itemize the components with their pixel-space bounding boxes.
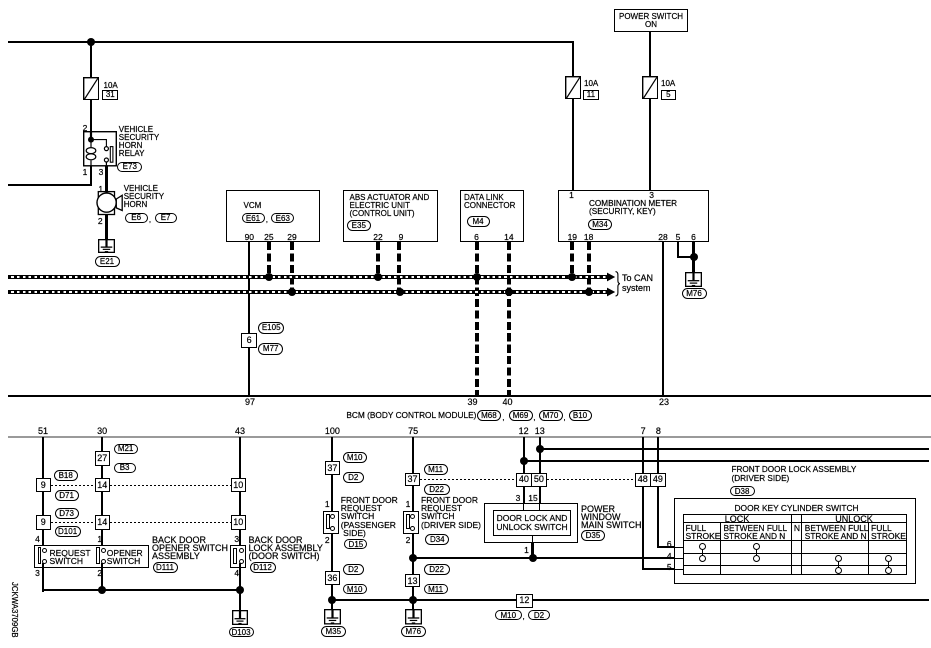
- wire: VCM pin 25 CAN-H drop: [267, 242, 271, 277]
- connector oval E35: [347, 220, 371, 231]
- label 10A fuse 11: [584, 80, 598, 88]
- wire: ABS pin 9 CAN-L drop: [397, 242, 401, 292]
- label OPENER SWITCH: [107, 549, 143, 565]
- boxed label 31: [102, 90, 118, 100]
- pin 43 label: [228, 427, 252, 436]
- wire: meter pin 5 jog right: [677, 256, 695, 258]
- pin 2 driver request switch: [397, 536, 419, 544]
- wire: VCM pin 29 CAN-L drop: [290, 242, 294, 292]
- connector oval M10 (wire 100 upper): [343, 452, 367, 463]
- pin 1 of relay: [74, 168, 96, 176]
- label FRONT DOOR REQUEST SWITCH (DRIVER SIDE): [421, 496, 481, 529]
- opener switch contact top: [101, 548, 106, 553]
- DOOR LOCK AND UNLOCK SWITCH inner box: [493, 510, 571, 536]
- connector oval M21: [114, 444, 138, 454]
- back door lock assembly (door switch) box: [230, 545, 246, 567]
- wire: meter pin 6 to ground: [692, 242, 694, 273]
- wire from node 12 to right edge: [523, 460, 929, 462]
- driver request switch bar: [406, 514, 410, 529]
- driver request switch contact top: [410, 514, 415, 519]
- pin 1 of horn: [90, 185, 112, 193]
- table horizontal line under LOCK/UNLOCK: [683, 522, 908, 523]
- wire: opener switch pin 2 down: [101, 563, 103, 592]
- connector oval E61: [242, 213, 265, 224]
- request switch contact top: [42, 548, 47, 553]
- label VCM: [244, 202, 262, 210]
- wire from node 13 to right edge: [539, 448, 929, 450]
- door switch contact bar: [233, 548, 237, 564]
- wire 23: meter pin 28 to BCM: [662, 242, 664, 396]
- connector oval M70: [539, 410, 563, 421]
- node: wire 75 on unlock bus: [409, 554, 417, 562]
- table vertical line N/col3: [801, 514, 802, 575]
- pin 2 below opener switch: [89, 569, 111, 577]
- wire: pin 15 inside switch box: [539, 503, 540, 511]
- label FRONT DOOR REQUEST SWITCH (PASSENGER SIDE): [341, 496, 398, 537]
- pin 1 of combination meter: [561, 191, 583, 199]
- wire 43 between rows: [239, 492, 241, 515]
- connector oval M10 (wire 100 lower): [343, 584, 367, 595]
- label FULL STROKE lock: [686, 524, 721, 540]
- connector oval D22 (wire 75 lower): [424, 564, 450, 575]
- ground symbol M35: [324, 609, 341, 625]
- label N: [793, 524, 802, 532]
- label UNLOCK: [826, 515, 882, 523]
- node: wire 13 branch: [536, 445, 544, 453]
- table vertical line col2/N: [791, 514, 792, 575]
- connector 10 box row1: [231, 478, 246, 492]
- pin 19 of combination meter: [561, 233, 583, 241]
- passenger request switch contact bottom: [330, 526, 335, 531]
- ground bus bottom: [331, 599, 929, 601]
- pin 5 key cylinder: [658, 563, 680, 571]
- node: meter 18 on CAN-L: [585, 288, 593, 296]
- connector oval B10: [569, 410, 592, 421]
- connector 13 box on wire 75: [405, 574, 421, 588]
- wire 7 horizontal into table: [642, 568, 675, 570]
- connector 14 box row1: [95, 478, 110, 492]
- node: VCM 25 on CAN-H: [265, 273, 273, 281]
- door switch contact bottom: [239, 559, 244, 564]
- contact circle lock full row6: [699, 543, 706, 550]
- pin 9 of ABS unit: [390, 233, 412, 241]
- label ABS ACTUATOR AND ELECTRIC UNIT (CONTROL UNIT): [350, 194, 430, 218]
- driver request switch contact bottom: [410, 526, 415, 531]
- pin 6 of DLC: [466, 233, 488, 241]
- contact circle lock between row4: [753, 555, 760, 562]
- wire 8 to key cylinder row 6: [657, 487, 659, 549]
- connector 6 box on wire 97: [241, 333, 257, 349]
- connector oval B18: [54, 470, 78, 481]
- pin 18 of combination meter: [578, 233, 600, 241]
- contact circle unlock between row5: [835, 567, 842, 574]
- front door lock assembly outer box: [674, 498, 916, 584]
- pin 23 label at BCM: [652, 398, 676, 407]
- vehicle security horn symbol E6/E7: [96, 190, 124, 216]
- brace to CAN system: [615, 271, 621, 297]
- pin 7 label: [631, 427, 655, 436]
- wire: meter pin 5 down: [677, 242, 679, 257]
- POWER SWITCH ON box: [614, 9, 688, 32]
- wire: request switch pin 3 down: [42, 563, 44, 592]
- wire 7 to key cylinder row 5: [642, 487, 644, 570]
- connector 37 box on wire 75: [405, 473, 421, 486]
- front door request switch driver box: [403, 511, 419, 534]
- wire 100 from BCM: [331, 437, 333, 462]
- pin 90 of VCM: [238, 233, 260, 241]
- contact circle lock full row4: [699, 555, 706, 562]
- dotted connector line row2 left: [51, 522, 95, 523]
- pin 1 back door opener switch: [89, 535, 111, 543]
- connector oval D103: [229, 627, 254, 638]
- connector oval E73: [117, 162, 142, 172]
- VCM box: [226, 190, 320, 242]
- connector 36 box on wire 100: [325, 571, 341, 585]
- label FRONT DOOR LOCK ASSEMBLY (DRIVER SIDE): [732, 466, 857, 484]
- key cylinder switch table frame: [683, 514, 908, 575]
- pin 1 power window main switch: [516, 546, 538, 554]
- connector oval M76 (meter ground): [682, 288, 707, 299]
- connector oval D35: [581, 530, 605, 541]
- connector oval M68: [477, 410, 501, 421]
- connector oval M11 (wire 75 upper): [424, 464, 448, 475]
- sidebar code JCKWA3709GB: [10, 582, 19, 638]
- wire 12 from BCM: [523, 437, 525, 474]
- ground symbol M76 (bottom): [405, 609, 422, 625]
- wire: fuse 11 to combination meter pin 1: [572, 99, 574, 190]
- pin 3 below request switch: [27, 569, 49, 577]
- wire: pin 1 inside switch box: [532, 535, 533, 543]
- connector 50 box on wire 13: [531, 473, 548, 487]
- dotted connector line row2 right: [110, 522, 231, 523]
- wire 75 to bus junction and connector 13: [412, 533, 414, 575]
- passenger request switch bar: [326, 514, 330, 529]
- connector oval M76 (bottom): [401, 626, 426, 637]
- boxed label 5: [661, 90, 677, 100]
- label BETWEEN FULL STROKE AND N unlock: [805, 524, 869, 540]
- pin 3 of combination meter: [641, 191, 663, 199]
- pin 2 passenger request switch: [316, 536, 338, 544]
- wire 75 to driver request switch: [412, 485, 414, 511]
- wire: left horizontal bus to relay pin 1: [8, 184, 92, 186]
- BCM bottom edge line (gray): [8, 436, 931, 438]
- wire: horn pin 2 to ground E21: [105, 215, 107, 241]
- wire 13 from BCM: [539, 437, 541, 474]
- connector oval M11 (wire 75 lower): [424, 584, 448, 595]
- connector oval E7: [155, 213, 177, 223]
- pin 2 of relay E73: [74, 124, 96, 132]
- wire: connector 50 to switch pin 15: [539, 487, 541, 504]
- node: wire 12 branch: [520, 457, 528, 465]
- wire 30 between connectors: [101, 465, 103, 479]
- connector oval M77: [258, 343, 283, 355]
- label VEHICLE SECURITY HORN RELAY: [119, 126, 159, 158]
- contact circle unlock full row5: [885, 567, 892, 574]
- connector oval E6: [125, 213, 148, 223]
- connector oval D22 (wire 75 upper): [424, 484, 450, 495]
- pin 12 label: [512, 427, 536, 436]
- wire 40: DLC pin 14 to BCM: [507, 242, 511, 396]
- dotted connector line 50 to 48: [547, 479, 635, 480]
- wire 8 horizontal into table: [657, 546, 675, 548]
- connector 10 box row2: [231, 515, 246, 529]
- ground symbol D103: [232, 610, 248, 625]
- wire 75 from BCM: [412, 437, 414, 474]
- connector oval D71: [55, 490, 79, 501]
- front door request switch passenger box: [323, 511, 339, 534]
- contact circle unlock full row4: [885, 555, 892, 562]
- node: VCM 29 on CAN-L: [288, 288, 296, 296]
- pin 4 below door switch: [226, 569, 248, 577]
- wire 8 from BCM: [657, 437, 659, 474]
- contact tick unlock full: [888, 562, 889, 570]
- pin 97 label at BCM: [238, 398, 262, 407]
- connector oval M10 (ground bus): [495, 610, 522, 621]
- wire: supply bus corner down to fuse 11: [572, 41, 574, 76]
- pin 75 label: [401, 427, 425, 436]
- CAN-H bus line: [8, 275, 607, 279]
- label REQUEST SWITCH: [50, 549, 91, 565]
- table horizontal line row4/row5: [683, 565, 908, 566]
- wire 7 from BCM: [642, 437, 644, 474]
- ground bus back door: [42, 589, 241, 591]
- pin 39 label at BCM: [461, 398, 485, 407]
- label VEHICLE SECURITY HORN: [124, 185, 164, 209]
- wire 75 to ground M76: [412, 587, 414, 610]
- node: DLC 6 on CAN-H: [473, 273, 481, 281]
- unlock bus to key cylinder row 4: [412, 557, 675, 559]
- COMBINATION METER box: [558, 190, 710, 242]
- comma after M69: [533, 414, 535, 422]
- node: junction on supply bus above fuse 31: [87, 38, 95, 46]
- comma between E61 and E63: [266, 216, 268, 224]
- dotted connector line row1 left: [51, 485, 95, 486]
- connector oval D2 (wire 100 lower): [343, 564, 364, 575]
- connector oval D34: [425, 534, 449, 545]
- pin 15 door lock switch: [522, 494, 544, 502]
- connector 37 box on wire 100: [325, 461, 341, 475]
- node: DLC 14 on CAN-L: [505, 288, 513, 296]
- door switch contact top: [239, 548, 244, 553]
- wire 100 to passenger request switch: [331, 474, 333, 511]
- pin 40 label at BCM: [496, 398, 520, 407]
- opener switch contact bar: [96, 547, 100, 564]
- boxed label 11: [583, 90, 599, 100]
- ABS actuator box: [343, 190, 438, 242]
- contact circle unlock between row4: [835, 555, 842, 562]
- wire: top supply bus: [8, 41, 574, 43]
- back door opener switch assembly box: [34, 545, 149, 568]
- pin 25 of VCM: [258, 233, 280, 241]
- wire: meter pin 19 CAN-H drop: [570, 242, 574, 277]
- pin 100 label: [320, 427, 344, 436]
- wire 39: DLC pin 6 to BCM: [475, 242, 479, 396]
- wire: power switch to fuse 5: [649, 32, 651, 76]
- connector oval E21: [95, 256, 120, 267]
- pin 29 of VCM: [281, 233, 303, 241]
- power window main switch outer box: [484, 503, 578, 544]
- wire 30 to opener switch: [101, 529, 103, 548]
- label BETWEEN FULL STROKE AND N lock: [724, 524, 788, 540]
- label BCM (BODY CONTROL MODULE): [346, 411, 476, 419]
- label 10A fuse 31: [104, 82, 118, 90]
- pin 8 label: [646, 427, 670, 436]
- connector oval D101: [55, 526, 81, 537]
- wire: relay pin 3 to horn pin 1: [105, 166, 107, 192]
- pin 5 of combination meter: [667, 233, 689, 241]
- connector 12 box on ground bus: [516, 594, 533, 608]
- wire 51 to request switch: [42, 529, 44, 548]
- label To CAN system: [622, 274, 653, 293]
- label POWER WINDOW MAIN SWITCH: [581, 505, 642, 530]
- wire: switch pin 1 to unlock bus: [531, 543, 533, 559]
- pin 3 of relay: [90, 168, 112, 176]
- label DATA LINK CONNECTOR: [464, 194, 515, 210]
- wire: pin 3 inside switch box: [523, 503, 524, 511]
- passenger request switch contact top: [330, 514, 335, 519]
- comma after M10: [523, 613, 525, 621]
- opener switch contact bottom: [101, 559, 106, 564]
- wire 100 to connector 36: [331, 533, 333, 572]
- node: door switch on ground bus: [236, 586, 244, 594]
- wire 30 from BCM: [101, 437, 103, 452]
- wire 51 between rows: [42, 492, 44, 515]
- wire stub row 6 into table: [674, 547, 683, 548]
- wire: door switch pin 4 down to ground: [239, 563, 241, 611]
- wire: fuse 31 to relay pin 2: [90, 100, 92, 140]
- label BACK DOOR OPENER SWITCH ASSEMBLY: [152, 536, 228, 561]
- wire 100 to ground M35: [331, 585, 333, 610]
- fuse 31 10A: [83, 77, 99, 100]
- node: junction meter pins 5/6: [690, 253, 698, 261]
- wire 30 between rows: [101, 492, 103, 515]
- node: ABS 9 on CAN-L: [396, 288, 404, 296]
- connector oval D73: [55, 508, 79, 519]
- node: ABS 22 on CAN-H: [374, 273, 382, 281]
- connector 9 box row1: [36, 478, 51, 492]
- node: opener switch on ground bus: [98, 586, 106, 594]
- connector oval E63: [271, 213, 294, 224]
- wire 51 from BCM: [42, 437, 44, 480]
- wire 43 from BCM: [239, 437, 241, 480]
- connector oval D2 (wire 100 upper): [343, 472, 364, 483]
- connector oval M69: [509, 410, 533, 421]
- wire: meter pin 18 CAN-L drop: [587, 242, 591, 292]
- contact circle lock between row6: [753, 543, 760, 550]
- pin 4 back door request switch: [27, 535, 49, 543]
- connector 9 box row2: [36, 515, 51, 529]
- wire: ABS pin 22 CAN-H drop: [376, 242, 380, 277]
- wire: relay pin 1 down to left bus: [90, 166, 92, 186]
- comma after M70: [563, 414, 565, 422]
- label BACK DOOR LOCK ASSEMBLY (DOOR SWITCH): [249, 536, 323, 561]
- node: wire 75 on ground bus: [409, 596, 417, 604]
- dotted connector line 37 to 40: [420, 479, 516, 480]
- fuse 5 10A: [642, 76, 658, 99]
- pin 3 back door door switch: [226, 535, 248, 543]
- dotted connector line row1 right: [110, 485, 231, 486]
- pin 22 of ABS unit: [367, 233, 389, 241]
- request switch contact bottom: [42, 559, 47, 564]
- node: pin 1 on unlock bus: [529, 554, 537, 562]
- connector oval D112: [250, 562, 276, 573]
- contact tick lock between: [756, 549, 757, 557]
- ground symbol M76 (meter): [685, 272, 702, 287]
- wire 43 to door switch: [239, 529, 241, 548]
- table horizontal line row6/row4: [683, 553, 908, 554]
- connector oval D2 (ground bus): [528, 610, 550, 621]
- contact tick unlock between: [838, 562, 839, 570]
- label LOCK: [709, 515, 765, 523]
- connector 49 box on wire 8: [650, 473, 667, 487]
- pin 6 of combination meter: [683, 233, 705, 241]
- wire stub row 4 into table: [674, 558, 683, 559]
- connector oval E105: [258, 322, 284, 334]
- pin 51 label: [31, 427, 55, 436]
- connector 14 box row2: [95, 515, 110, 529]
- BCM top edge line: [8, 395, 931, 397]
- connector oval M34: [588, 219, 612, 230]
- connector 27 box on wire 30: [95, 451, 110, 466]
- connector oval M4: [467, 216, 490, 227]
- CAN-L bus line: [8, 290, 607, 294]
- wire 97: VCM pin 90 to BCM: [248, 242, 250, 396]
- wire: fuse 5 to combination meter pin 3: [649, 99, 651, 190]
- pin 6 key cylinder: [658, 540, 680, 548]
- connector 40 box on wire 12: [516, 473, 532, 487]
- pin 2 of horn: [89, 217, 111, 225]
- wire stub row 5 into table: [674, 569, 683, 570]
- pin 30 label: [90, 427, 114, 436]
- comma after M68: [502, 414, 504, 422]
- connector 48 box on wire 7: [635, 473, 651, 487]
- pin 14 of DLC: [498, 233, 520, 241]
- CAN-H arrowhead: [607, 272, 616, 282]
- wire: connector 40 to switch pin 3: [523, 487, 525, 504]
- request switch contact bar: [38, 547, 42, 564]
- node: wire 100 on ground bus: [328, 596, 336, 604]
- pin 1 driver request switch: [397, 500, 419, 508]
- label COMBINATION METER (SECURITY, KEY): [589, 200, 677, 216]
- pin 28 of combination meter: [652, 233, 674, 241]
- label 10A fuse 5: [661, 80, 675, 88]
- connector oval B3: [114, 463, 136, 473]
- connector oval D111: [153, 562, 178, 573]
- node: meter 19 on CAN-H: [568, 273, 576, 281]
- pin 3 door lock switch: [507, 494, 529, 502]
- ground symbol E21: [98, 239, 115, 253]
- table vertical line col3/col4: [868, 522, 869, 575]
- label DOOR KEY CYLINDER SWITCH: [735, 504, 859, 512]
- DATA LINK CONNECTOR box: [460, 190, 525, 242]
- connector oval D38: [730, 486, 755, 497]
- table horizontal line under column heads: [683, 540, 908, 541]
- connector oval M35: [321, 626, 346, 637]
- comma between E6 and E7: [149, 216, 151, 224]
- pin 13 label: [528, 427, 552, 436]
- fuse 11 10A: [565, 76, 581, 99]
- wire: supply bus to fuse 31: [90, 42, 92, 78]
- pin 1 passenger request switch: [316, 500, 338, 508]
- CAN-L arrowhead: [607, 287, 616, 297]
- relay E73 box with coil and contact: [83, 131, 117, 167]
- table vertical line col1/col2: [720, 522, 721, 575]
- label FULL STROKE unlock: [871, 524, 906, 540]
- connector oval D15: [344, 539, 367, 550]
- pin 4 key cylinder: [658, 552, 680, 560]
- contact tick lock full: [702, 549, 703, 557]
